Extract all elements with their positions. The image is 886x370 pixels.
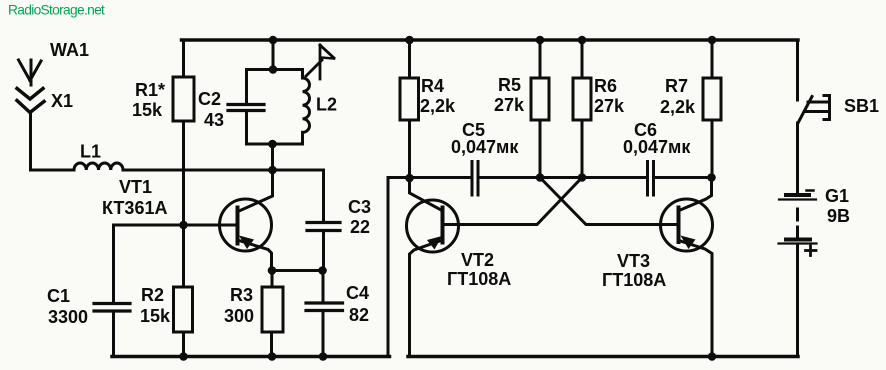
- switch SB1: [798, 96, 879, 124]
- svg-text:300: 300: [224, 306, 254, 326]
- wire L1 to C3 corner (crosses R1 lead without junction): [123, 170, 324, 222]
- svg-text:SB1: SB1: [844, 96, 879, 116]
- wire emitter to C3/C4 node: [272, 269, 323, 272]
- svg-text:9В: 9В: [827, 206, 850, 226]
- svg-text:R3: R3: [230, 285, 253, 305]
- svg-text:VT1: VT1: [119, 177, 152, 197]
- resistor R3: [224, 271, 283, 357]
- node VT3 emitter ground: [708, 352, 717, 361]
- capacitor C6: [623, 120, 691, 195]
- wire tank from rail: [272, 40, 275, 70]
- wire SB1 to G1: [796, 123, 799, 193]
- svg-text:G1: G1: [825, 186, 849, 206]
- svg-text:2,2k: 2,2k: [420, 96, 456, 116]
- node C4 ground: [319, 352, 328, 361]
- svg-text:C3: C3: [348, 197, 371, 217]
- svg-text:RadioStorage.net: RadioStorage.net: [8, 3, 105, 18]
- wire bottom rail left: [112, 355, 390, 359]
- svg-text:15k: 15k: [132, 100, 163, 120]
- svg-text:КТ361А: КТ361А: [102, 198, 167, 218]
- battery G1: [779, 186, 851, 256]
- svg-text:C2: C2: [198, 89, 221, 109]
- wire G1 to bottom rail: [796, 245, 799, 357]
- node VT3 collector: [707, 173, 716, 182]
- svg-text:VT3: VT3: [617, 251, 650, 271]
- wire cross-coupling R5 to VT3 base: [540, 178, 677, 225]
- svg-text:R2: R2: [141, 285, 164, 305]
- node R6 bottom: [578, 173, 587, 182]
- svg-text:C1: C1: [47, 286, 70, 306]
- svg-text:0,047мк: 0,047мк: [623, 137, 691, 157]
- node C3/C4: [318, 266, 327, 275]
- wire C6 to R7 node: [655, 176, 712, 179]
- wire cross-coupling R6 to VT2 base: [444, 178, 582, 225]
- node VT1 base: [179, 221, 188, 230]
- node rail/tank: [269, 36, 278, 45]
- resistor R6: [573, 40, 625, 178]
- wire antenna to L1: [31, 113, 75, 171]
- capacitor C4: [306, 271, 369, 357]
- transistor VT2: [407, 178, 512, 357]
- wire tank bottom to VT1 collector: [239, 144, 273, 211]
- transistor VT3: [602, 178, 713, 357]
- transistor VT1: [102, 177, 272, 271]
- node collector/antenna/C3: [268, 166, 277, 175]
- wire top supply rail: [182, 38, 799, 42]
- svg-text:15k: 15k: [140, 306, 171, 326]
- svg-text:22: 22: [350, 217, 370, 237]
- node R5 bottom: [536, 173, 545, 182]
- capacitor C5: [451, 120, 519, 195]
- svg-text:43: 43: [204, 110, 224, 130]
- wire bottom rail right: [408, 355, 798, 359]
- node VT2 collector: [405, 174, 414, 183]
- svg-text:L1: L1: [80, 142, 101, 162]
- svg-text:82: 82: [349, 305, 369, 325]
- inductor L2: [303, 70, 338, 145]
- resistor R2: [140, 225, 193, 357]
- L2 trimmer arrow: [306, 45, 334, 79]
- svg-text:WA1: WA1: [50, 40, 89, 60]
- wire tank top: [247, 68, 303, 71]
- node R4 top: [405, 36, 414, 45]
- wire base to C1: [114, 225, 184, 302]
- resistor R1: [132, 40, 194, 225]
- svg-text:27k: 27k: [494, 95, 525, 115]
- svg-text:X1: X1: [51, 91, 73, 111]
- svg-text:R6: R6: [594, 76, 617, 96]
- inductor L1: [74, 142, 123, 171]
- node R3 ground: [268, 352, 277, 361]
- svg-text:C4: C4: [346, 283, 369, 303]
- resistor R7: [660, 40, 721, 178]
- node R7 top: [708, 36, 717, 45]
- wire tank bottom: [247, 143, 303, 146]
- wire C5 to R5/R6 nodes to C6: [480, 176, 647, 179]
- svg-text:L2: L2: [316, 95, 337, 115]
- wire rail to SB1: [796, 40, 799, 100]
- node tank bottom: [268, 140, 277, 149]
- svg-text:R5: R5: [498, 75, 521, 95]
- svg-text:2,2k: 2,2k: [660, 97, 696, 117]
- resistor R5: [494, 40, 549, 178]
- svg-text:ГТ108А: ГТ108А: [447, 269, 511, 289]
- node R2 ground: [179, 352, 188, 361]
- svg-text:ГТ108А: ГТ108А: [602, 270, 666, 290]
- svg-text:R7: R7: [665, 76, 688, 96]
- svg-text:0,047мк: 0,047мк: [451, 137, 519, 157]
- resistor R4: [400, 40, 456, 178]
- node tank top: [269, 65, 278, 74]
- antenna WA1: [19, 40, 90, 85]
- svg-text:R4: R4: [421, 76, 444, 96]
- svg-text:3300: 3300: [48, 307, 88, 327]
- capacitor C3: [307, 197, 371, 271]
- svg-text:R1*: R1*: [135, 80, 165, 100]
- wire collector node to C5: [410, 176, 471, 179]
- connector X1: [17, 89, 73, 113]
- capacitor C2 (left branch of tank): [198, 70, 264, 145]
- node VT1 emitter: [268, 266, 277, 275]
- node R5 top: [536, 36, 545, 45]
- node R6 top: [578, 36, 587, 45]
- svg-text:27k: 27k: [594, 96, 625, 116]
- wire left rail riser to VT2 collector node: [388, 178, 410, 357]
- capacitor C1: [47, 286, 130, 357]
- svg-text:VT2: VT2: [461, 250, 494, 270]
